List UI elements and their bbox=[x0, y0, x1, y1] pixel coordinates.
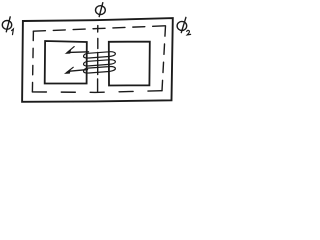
flux path dashed bottom edge bbox=[32, 91, 162, 93]
flux path dashed top edge bbox=[33, 26, 165, 31]
flux path dashed right edge bbox=[162, 26, 166, 91]
center flux line dash 3 (through coil) bbox=[97, 53, 99, 75]
label Phi2 bar bbox=[181, 17, 186, 32]
label Phi1 bar bbox=[6, 17, 10, 32]
winding lead upper (arrow shaft) bbox=[69, 51, 89, 54]
flux path dashed left edge bbox=[32, 31, 33, 92]
label Phi2 (top right): ellipse bbox=[177, 21, 187, 30]
core outline (outer rectangle) bbox=[22, 18, 173, 102]
label Phi (top center): ellipse bbox=[96, 6, 106, 15]
center flux line dash 4 (to bottom dashed edge) bbox=[97, 79, 99, 92]
center flux line dash 2 bbox=[97, 39, 99, 49]
left window rectangle bbox=[45, 41, 87, 84]
right window rectangle bbox=[109, 42, 150, 86]
coil turn 1 bbox=[84, 52, 116, 58]
arrowhead lower lead bbox=[66, 67, 73, 73]
label Phi1 subscript 1 bbox=[12, 29, 14, 35]
winding lead lower (arrow shaft) bbox=[70, 70, 88, 72]
center flux line dash 1 (crossing top dashed edge) bbox=[97, 26, 99, 32]
label Phi bar bbox=[99, 3, 103, 17]
coil turn 2 bbox=[84, 60, 116, 66]
coil turn 3 bbox=[84, 66, 116, 73]
label Phi2 subscript 2 bbox=[187, 30, 191, 35]
arrowhead upper lead bbox=[67, 47, 74, 53]
label Phi1 (top left): ellipse bbox=[2, 21, 11, 30]
